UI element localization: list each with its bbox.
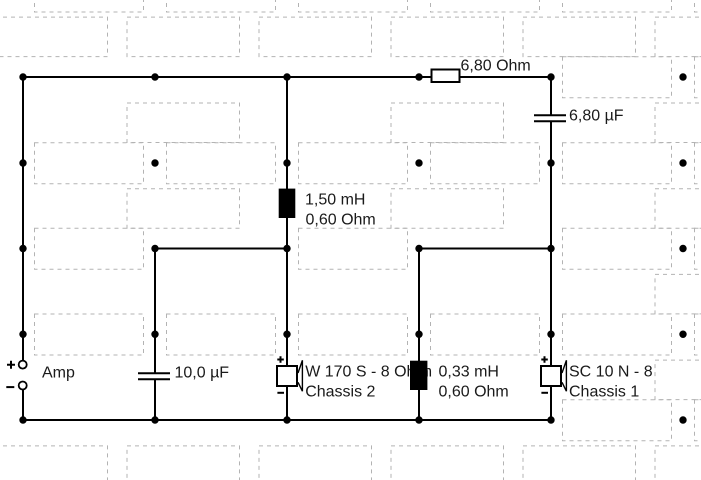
wire right branch: speaker LS1 down to bottom bus	[550, 386, 552, 421]
junction dot node (551,163)	[547, 159, 554, 166]
grid node dot node (683,420)	[679, 416, 686, 423]
svg-text:0,33 mH: 0,33 mH	[439, 363, 499, 380]
wire middle link node (155,248)-(287,248)	[154, 248, 288, 250]
junction dot node (551,77)	[547, 73, 554, 80]
wire top bus (node A to node E)	[22, 76, 551, 78]
capacitor C1 6,80 uF plates	[534, 115, 566, 121]
wire branch B: capacitor C2 down to bottom bus	[154, 379, 156, 421]
junction dot node (155,248.5)	[151, 245, 158, 252]
junction dot node (287,163)	[283, 159, 290, 166]
junction dot node (155,77)	[151, 73, 158, 80]
junction dot node (419,77)	[415, 73, 422, 80]
speaker LS1 SC 10 N plus mark	[541, 356, 548, 363]
speaker LS2 W 170 S plus mark	[277, 356, 284, 363]
wire left branch from Amp - terminal to bottom bus	[22, 390, 24, 422]
wire branch C: node B down through inductor L1 region	[286, 76, 288, 248]
svg-text:Chassis 1: Chassis 1	[569, 383, 639, 400]
grid node dot node (683,334.25)	[679, 331, 686, 338]
svg-text:6,80 Ohm: 6,80 Ohm	[461, 58, 531, 75]
junction dot node (287,248.5)	[283, 245, 290, 252]
inductor L2 0,33 mH body	[410, 361, 427, 390]
svg-text:6,80 µF: 6,80 µF	[569, 108, 624, 125]
resistor R1 6,80 Ohm	[432, 70, 460, 83]
grid node dot node (683,163)	[679, 159, 686, 166]
capacitor C2 10,0 uF plates	[138, 373, 170, 379]
svg-text:0,60 Ohm: 0,60 Ohm	[439, 383, 509, 400]
grid node dot node (683,248.5)	[679, 245, 686, 252]
svg-text:Amp: Amp	[42, 365, 75, 382]
speaker LS2 W 170 S minus mark	[277, 392, 284, 394]
wire right branch: node E down to capacitor C1	[550, 76, 552, 116]
junction dot node (23,77)	[19, 73, 26, 80]
junction dot node (155,420)	[151, 416, 158, 423]
junction dot node (23,248.5)	[19, 245, 26, 252]
wire branch C: speaker LS2 down to bottom bus	[286, 386, 288, 421]
junction dot node (23,163)	[19, 159, 26, 166]
junction dot node (155,334.25)	[151, 331, 158, 338]
junction dot node (551,334.25)	[547, 331, 554, 338]
wire bottom bus (node F to node J)	[22, 419, 552, 421]
junction dot node (23,334.25)	[19, 331, 26, 338]
amp positive terminal	[19, 361, 27, 369]
speaker LS1 SC 10 N box	[541, 366, 561, 386]
junction dot node (287,77)	[283, 73, 290, 80]
svg-text:10,0 µF: 10,0 µF	[175, 365, 230, 382]
svg-text:0,60 Ohm: 0,60 Ohm	[306, 211, 376, 228]
grid node dot node (155,163)	[151, 159, 158, 166]
wire branch D: node (419,248) down through inductor L2 to bottom bus	[418, 248, 420, 422]
inductor L2 value label 0,33 mH / 0,60 Ohm	[439, 363, 509, 400]
speaker LS2 W 170 S box	[277, 366, 297, 386]
junction dot node (551,420)	[547, 416, 554, 423]
amp plus sign	[7, 361, 15, 369]
grid node dot node (683,77)	[679, 73, 686, 80]
speaker LS2 W 170 S label	[305, 363, 429, 400]
svg-text:SC 10 N - 8: SC 10 N - 8	[569, 363, 653, 380]
speaker LS2 W 170 S cone	[298, 360, 302, 391]
speaker LS1 SC 10 N minus mark	[541, 392, 548, 394]
svg-text:Chassis 2: Chassis 2	[305, 383, 375, 400]
junction dot node (551,248.5)	[547, 245, 554, 252]
junction dot node (419,420)	[415, 416, 422, 423]
wire right branch: capacitor C1 down to speaker LS1	[550, 121, 552, 366]
wire branch C: node (287,248) down to speaker LS2	[286, 248, 288, 367]
junction dot node (287,334.25)	[283, 331, 290, 338]
junction dot node (419,248.5)	[415, 245, 422, 252]
speaker LS1 SC 10 N cone	[562, 360, 566, 391]
wire right link node (419,248)-(551,248)	[418, 248, 552, 250]
svg-text:1,50 mH: 1,50 mH	[305, 191, 365, 208]
amp minus sign	[6, 386, 14, 388]
junction dot node (287,420)	[283, 416, 290, 423]
inductor L1 value label 1,50 mH / 0,60 Ohm	[305, 191, 376, 228]
speaker LS1 SC 10 N label	[569, 363, 653, 400]
junction dot node (419,334.25)	[415, 331, 422, 338]
grid node dot node (419,163)	[415, 159, 422, 166]
wire left branch from node A down to Amp + terminal	[22, 76, 24, 361]
wire branch B: node (155,248) down to capacitor C2	[154, 248, 156, 374]
inductor L1 1,50 mH body	[279, 189, 296, 218]
junction dot node (23,420)	[19, 416, 26, 423]
amp negative terminal	[19, 382, 27, 390]
